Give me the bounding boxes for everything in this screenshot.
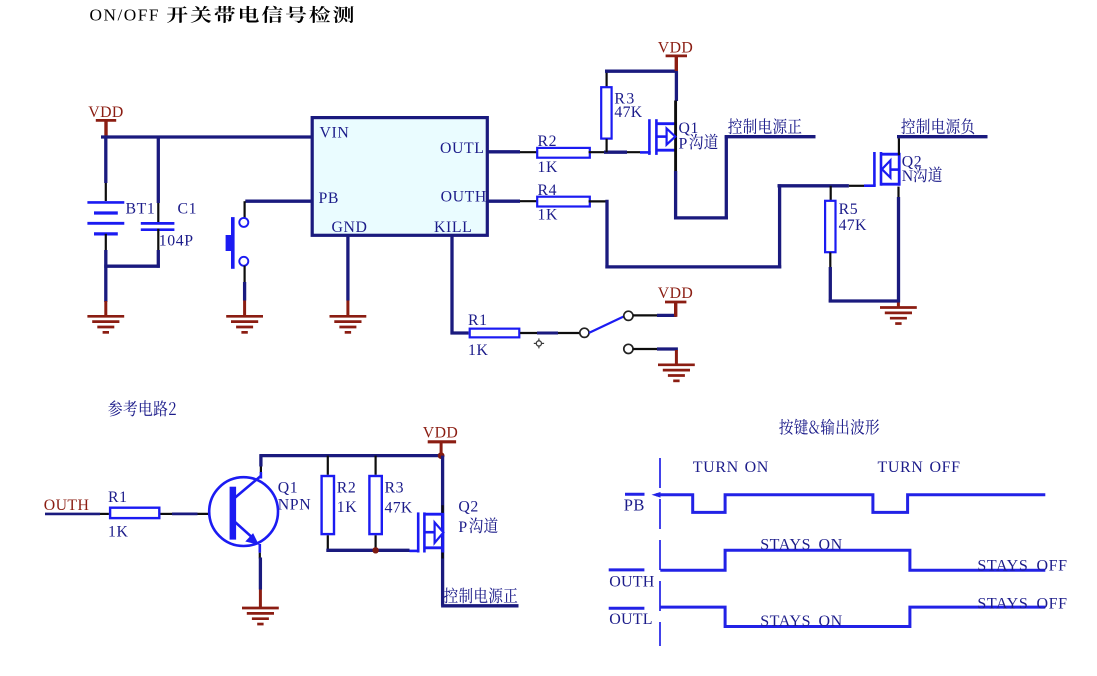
svg-text:OUTH: OUTH xyxy=(609,573,654,590)
svg-text:ON: ON xyxy=(819,613,843,630)
svg-text:P: P xyxy=(458,519,467,536)
svg-text:OUTL: OUTL xyxy=(609,611,652,628)
svg-text:R5: R5 xyxy=(839,201,859,218)
svg-text:Q2: Q2 xyxy=(458,499,479,516)
svg-text:ON: ON xyxy=(819,537,843,554)
svg-text:1K: 1K xyxy=(538,159,559,176)
svg-text:R2: R2 xyxy=(337,479,357,496)
svg-text:1K: 1K xyxy=(108,524,129,541)
svg-text:KILL: KILL xyxy=(434,219,472,236)
svg-text:1K: 1K xyxy=(337,499,358,516)
svg-text:VDD: VDD xyxy=(423,425,458,442)
svg-text:NPN: NPN xyxy=(278,497,311,514)
svg-text:STAYS: STAYS xyxy=(760,613,811,630)
svg-text:VDD: VDD xyxy=(88,104,123,121)
svg-text:OFF: OFF xyxy=(1037,557,1068,574)
svg-text:47K: 47K xyxy=(614,104,642,121)
svg-text:BT1: BT1 xyxy=(126,200,156,217)
svg-text:TURN: TURN xyxy=(693,459,739,476)
svg-text:P: P xyxy=(679,135,688,152)
svg-text:N: N xyxy=(902,168,914,185)
svg-text:1K: 1K xyxy=(538,206,559,223)
svg-text:C1: C1 xyxy=(178,200,198,217)
svg-text:GND: GND xyxy=(332,219,368,236)
svg-text:OUTH: OUTH xyxy=(441,188,487,205)
svg-text:PB: PB xyxy=(319,190,340,207)
svg-text:STAYS: STAYS xyxy=(977,596,1028,613)
svg-text:OFF: OFF xyxy=(930,459,961,476)
svg-text:47K: 47K xyxy=(385,499,413,516)
svg-text:ON: ON xyxy=(745,459,769,476)
svg-text:VDD: VDD xyxy=(658,39,693,56)
svg-text:R4: R4 xyxy=(538,182,558,199)
svg-text:R2: R2 xyxy=(538,133,558,150)
svg-text:VIN: VIN xyxy=(320,124,350,141)
svg-text:STAYS: STAYS xyxy=(760,537,811,554)
svg-text:STAYS: STAYS xyxy=(977,557,1028,574)
svg-text:1K: 1K xyxy=(468,342,489,359)
svg-text:R3: R3 xyxy=(385,479,405,496)
svg-text:R1: R1 xyxy=(468,312,488,329)
svg-text:VDD: VDD xyxy=(658,285,693,302)
svg-text:TURN: TURN xyxy=(878,459,924,476)
svg-text:OUTH: OUTH xyxy=(44,497,89,514)
svg-text:47K: 47K xyxy=(839,217,867,234)
svg-text:Q1: Q1 xyxy=(278,479,299,496)
svg-text:104P: 104P xyxy=(159,232,194,249)
svg-text:R1: R1 xyxy=(108,489,128,506)
svg-text:PB: PB xyxy=(624,495,645,514)
svg-text:OFF: OFF xyxy=(1037,596,1068,613)
svg-text:ON/OFF: ON/OFF xyxy=(90,5,160,24)
svg-text:OUTL: OUTL xyxy=(440,140,485,157)
